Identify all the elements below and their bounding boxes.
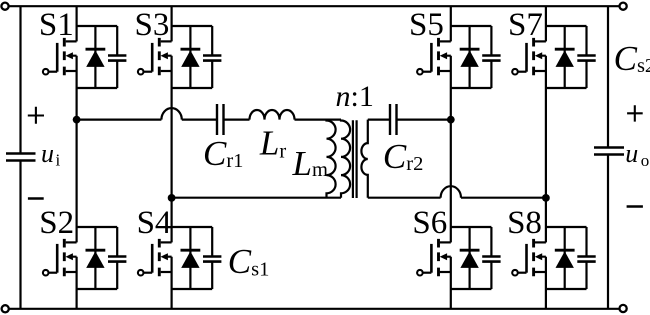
wire leg B lower [171, 289, 173, 309]
transistor S3 MOSFET with body diode and snubber capacitor [138, 26, 222, 88]
wire bottom rail [9, 308, 619, 310]
svg-text:S4: S4 [137, 205, 172, 241]
transformer core [353, 120, 357, 198]
svg-text:S7: S7 [508, 7, 543, 43]
svg-text:Cr1: Cr1 [203, 134, 243, 173]
transistor S4 MOSFET with body diode and snubber capacitor Cs1 [138, 227, 222, 289]
wire leg B upper [171, 6, 173, 26]
wire leg C lower [450, 289, 452, 309]
svg-text:Lm: Lm [292, 144, 328, 183]
wire bottom tank rail left (leg B to primary) [172, 197, 341, 199]
transistor S5 MOSFET with body diode and snubber capacitor [417, 26, 501, 88]
svg-text:S1: S1 [39, 7, 74, 43]
output terminal top-right [620, 3, 627, 10]
wire crossover hop over leg B [161, 108, 181, 120]
svg-text:Lr: Lr [259, 124, 286, 163]
svg-text:n:1: n:1 [336, 80, 374, 113]
transistor S6 MOSFET with body diode and snubber capacitor [417, 227, 501, 289]
wire hop to leg D [461, 197, 546, 199]
svg-text:S3: S3 [134, 7, 169, 43]
svg-text:Cs2: Cs2 [614, 39, 650, 78]
junction node leg A mid-rail [73, 116, 81, 124]
wire top rail [9, 5, 620, 7]
wire mid-rail from leg A to hop [77, 118, 162, 120]
wire leg D upper [545, 6, 547, 26]
junction node leg C top tank wire [447, 116, 455, 124]
capacitor Cr2 resonant [390, 104, 397, 135]
wire leg A upper (S1 drain to top rail) [75, 6, 77, 26]
transformer secondary winding [361, 120, 367, 198]
transistor S8 MOSFET with body diode and snubber capacitor [512, 227, 596, 289]
junction node leg B bottom tank wire [168, 194, 176, 202]
wire leg A middle (S1 source to S2 drain) [75, 88, 77, 227]
wire left rail upper [19, 6, 21, 153]
svg-text:ui: ui [41, 139, 61, 169]
inductor Lr resonant [250, 110, 295, 120]
svg-text:S8: S8 [507, 205, 542, 241]
input terminal bottom-left [2, 305, 9, 312]
wire leg C middle [450, 88, 452, 227]
output terminal bottom-right [620, 305, 627, 312]
wire right rail lower [607, 155, 609, 309]
svg-text:S2: S2 [39, 205, 74, 241]
capacitor output filter (on uo rail) [594, 148, 624, 155]
wire right rail upper [607, 6, 609, 147]
wire leg D middle [545, 88, 547, 227]
wire leg B middle [171, 88, 173, 227]
transistor S1 MOSFET with body diode and snubber capacitor [43, 26, 127, 88]
junction node leg D bottom tank wire [542, 194, 550, 202]
capacitor Cr1 resonant [217, 104, 224, 135]
svg-text:S5: S5 [409, 7, 444, 43]
wire secondary top to Cr2 [368, 118, 390, 120]
wire leg D lower [545, 289, 547, 309]
transistor S7 MOSFET with body diode and snubber capacitor Cs2 [512, 26, 596, 88]
wire Cr2 to leg C [397, 118, 451, 120]
minus sign output [627, 205, 643, 208]
plus sign input [28, 107, 44, 124]
wire hop to Cr1 [182, 118, 217, 120]
svg-text:Cs1: Cs1 [228, 242, 270, 281]
capacitor input filter (on ui rail) [6, 154, 36, 161]
inductor Lm magnetizing [327, 120, 336, 198]
wire Cr1 to Lr [224, 118, 250, 120]
wire left rail lower [19, 161, 21, 309]
wire leg C upper [450, 6, 452, 26]
wire leg A lower (S2 source to bottom rail) [75, 289, 77, 309]
transformer primary winding [341, 120, 350, 198]
wire crossover hop over leg C [441, 186, 461, 197]
svg-text:uo: uo [625, 139, 649, 170]
wire bottom tank rail right from secondary to hop [368, 197, 441, 199]
plus sign output [627, 105, 643, 121]
svg-text:S6: S6 [412, 205, 447, 241]
wire Lr to transformer primary [295, 118, 342, 120]
svg-text:Cr2: Cr2 [383, 137, 423, 176]
minus sign input [28, 197, 44, 200]
transistor S2 MOSFET with body diode and snubber capacitor [43, 227, 127, 289]
input terminal top-left [1, 3, 8, 10]
